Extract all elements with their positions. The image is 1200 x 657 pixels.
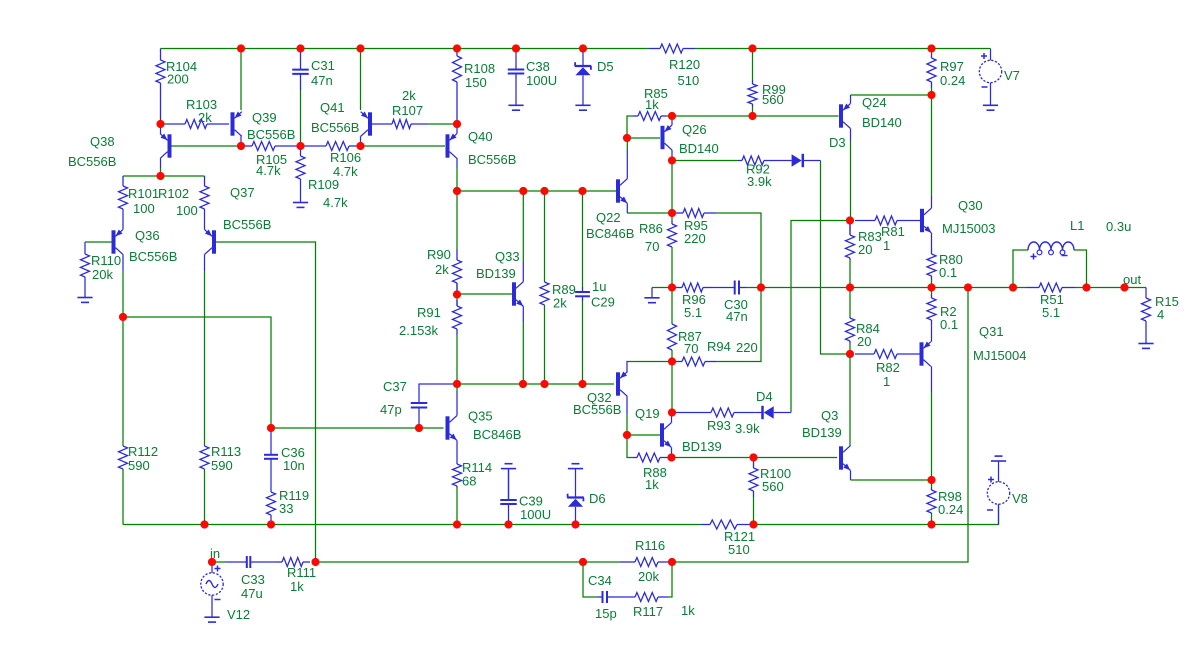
wire Q3 emitter lead (850, 470, 852, 480)
junction bottom rail / R98 (927, 520, 935, 528)
resistor R116 (620, 558, 672, 567)
svg-text:Q33: Q33 (495, 249, 520, 264)
wire C36 R119 link (270, 459, 272, 492)
junction Q31 bias node (846, 350, 854, 358)
transistor Q3 BD139 (841, 446, 850, 471)
junction node R104 R103 Q38 (156, 120, 164, 128)
junction R106 / Q41 collector (356, 142, 364, 150)
wire Q40 collector lead (456, 158, 458, 168)
wire Q36 emitter lead (122, 215, 124, 230)
minus V12 (215, 599, 221, 601)
wire top supply rail right (695, 48, 991, 50)
wire Q38 emitter lead (160, 124, 162, 134)
svg-text:4.7k: 4.7k (323, 195, 348, 210)
wire feedback takeoff (672, 288, 968, 563)
svg-text:220: 220 (736, 340, 758, 355)
wire Q32 collector lead (626, 396, 628, 414)
wire Q32 collector to Q19 base (627, 414, 660, 435)
svg-text:C31: C31 (311, 58, 335, 73)
junction L1 left (1009, 283, 1017, 291)
wire R100 bottom to rail (753, 497, 755, 525)
svg-text:BC556B: BC556B (468, 152, 516, 167)
svg-text:70: 70 (645, 239, 659, 254)
svg-text:D4: D4 (756, 389, 773, 404)
wire Q31 collector lead (931, 366, 933, 392)
plus V12 (215, 566, 221, 572)
wire Q37 collector lead (204, 254, 206, 271)
svg-text:Q35: Q35 (468, 409, 493, 424)
node in (208, 558, 216, 566)
svg-text:out: out (1123, 272, 1141, 287)
junction feedback / R111 (311, 558, 319, 566)
wire node R94 down to R93 node (671, 362, 673, 413)
plus V7 (981, 53, 987, 59)
wire L1 loop (1013, 250, 1028, 288)
svg-text:BC556B: BC556B (573, 402, 621, 417)
junction Q3 emitter / R98 (927, 476, 935, 484)
svg-text:Q19: Q19 (635, 406, 660, 421)
resistor R100 (749, 458, 758, 498)
transistor Q33 BD139 (514, 282, 523, 307)
wire R97 top (931, 49, 933, 55)
transistor Q35 BC846B (448, 416, 457, 441)
junction row384 / R89 (540, 380, 548, 388)
svg-text:560: 560 (762, 92, 784, 107)
wire V7 lead bottom to ground (990, 83, 992, 105)
svg-text:1k: 1k (645, 477, 659, 492)
wire R87 to R94 node (671, 350, 673, 362)
wire Q3 emitter row (851, 479, 932, 481)
junction R99 / base row (748, 112, 756, 120)
resistor R80 (927, 249, 936, 281)
resistor R112 (119, 446, 128, 469)
wire Q24-Q30 bias to R83 (849, 224, 851, 234)
wire lag C34 branch right (668, 562, 672, 597)
wire output rail (761, 287, 1027, 289)
svg-text:Q41: Q41 (320, 100, 345, 115)
wire R88 to R100 node (672, 457, 754, 459)
resistor R92 (738, 156, 768, 165)
svg-text:Q24: Q24 (862, 95, 887, 110)
svg-text:C29: C29 (591, 295, 615, 310)
svg-text:Q40: Q40 (468, 129, 493, 144)
svg-text:R111: R111 (287, 565, 316, 580)
wire Q35 base stub (419, 427, 444, 429)
wire bottom rail left (123, 524, 701, 526)
resistor R98 (927, 488, 936, 514)
capacitor C37 (411, 403, 428, 408)
resistor R86 (668, 221, 677, 247)
wire Q22 collector lead (626, 150, 628, 179)
wire Q36 collector down (122, 271, 124, 317)
wire Q19 emitter stub (671, 447, 673, 457)
junction zobel ground node (668, 283, 676, 291)
svg-text:R107: R107 (392, 103, 423, 118)
svg-text:R101: R101 (128, 186, 159, 201)
junction Q19 emitter / R88 (667, 453, 675, 461)
junction row190 / R89 (540, 187, 548, 195)
resistor R97 (927, 54, 936, 88)
svg-text:L1: L1 (1070, 218, 1084, 233)
svg-text:0.1: 0.1 (939, 265, 957, 280)
junction top rail / R99 (748, 44, 756, 52)
wire Q19 base node down to R88 (627, 435, 633, 458)
wire Q36 collector lead (122, 254, 124, 271)
svg-text:R113: R113 (211, 444, 241, 459)
svg-text:33: 33 (279, 501, 293, 516)
junction feedback takeoff (964, 283, 972, 291)
wire R106 to Q40 base (361, 145, 445, 147)
wire output rail to out node (1087, 287, 1147, 289)
junction bottom rail / R113 (200, 520, 208, 528)
svg-text:Q36: Q36 (135, 228, 160, 243)
wire D3 anode lead (768, 160, 792, 162)
svg-text:0.24: 0.24 (938, 502, 963, 517)
svg-text:68: 68 (462, 474, 476, 489)
junction bottom rail / D6 (571, 520, 579, 528)
svg-text:20: 20 (858, 242, 872, 257)
wire R112 link (122, 317, 124, 446)
wire node Q24 emitter to R97 bottom (851, 94, 932, 96)
transistor Q37 BC556B (205, 230, 214, 255)
resistor R2 (927, 294, 936, 326)
svg-text:C37: C37 (383, 379, 407, 394)
svg-text:Q30: Q30 (958, 198, 983, 213)
junction feedback / C34 branch (579, 558, 587, 566)
junction bottom rail / C39 (504, 520, 512, 528)
wire Q38 base row (172, 145, 241, 147)
svg-text:V8: V8 (1012, 491, 1028, 506)
wire feedback row left (316, 561, 584, 563)
plus L1 (1031, 254, 1037, 260)
svg-text:1k: 1k (645, 97, 659, 112)
wire C29 top link (582, 191, 584, 287)
junction Q26 collector / R92 (668, 156, 676, 164)
resistor R99 (748, 80, 757, 107)
resistor R106 (303, 142, 361, 151)
svg-text:Q22: Q22 (596, 210, 621, 225)
wire D4 anode lead (774, 412, 791, 414)
ground above D6 (568, 464, 583, 469)
wire C39 bottom link (508, 508, 510, 525)
svg-text:2k: 2k (402, 88, 416, 103)
svg-text:590: 590 (211, 458, 233, 473)
wire Q26 emitter stub (671, 116, 673, 125)
wire D4 anode up to bias node (791, 221, 850, 413)
svg-text:Q3: Q3 (821, 408, 838, 423)
svg-text:3.9k: 3.9k (747, 174, 772, 189)
wire Q36 collector to C36 node (123, 317, 271, 428)
junction Q22 collector / Q26 base (623, 134, 631, 142)
wire output rail r51 right (1075, 287, 1087, 289)
wire R109 to ground (300, 179, 302, 202)
svg-text:1k: 1k (290, 579, 304, 594)
svg-text:R94: R94 (707, 339, 731, 354)
wire Q33 base (457, 293, 512, 295)
diode D3 (792, 154, 803, 167)
svg-text:100U: 100U (526, 73, 557, 88)
junction Q35 base / C37 (415, 424, 423, 432)
svg-text:70: 70 (684, 341, 698, 356)
junction Q40 collector / R90 (453, 187, 461, 195)
resistor R103 (166, 120, 229, 129)
wire bottom rail right (754, 504, 999, 525)
wire R86 top node (671, 213, 673, 221)
junction top rail / Q39 emitter (237, 44, 245, 52)
ground under R109 (293, 203, 308, 208)
wire Q24 emitter stub (850, 95, 852, 104)
svg-text:47n: 47n (726, 309, 748, 324)
svg-text:BD140: BD140 (862, 115, 902, 130)
resistor R107 (372, 120, 428, 129)
svg-text:0.24: 0.24 (940, 73, 965, 88)
svg-text:C33: C33 (241, 572, 265, 587)
wire R94 to output column (716, 288, 761, 362)
wire C36 node to Q35 base node (271, 427, 419, 429)
ground under V12 (204, 617, 219, 622)
resistor R121 (701, 520, 754, 529)
wire C36 top lead (270, 428, 272, 455)
svg-text:Q37: Q37 (230, 185, 255, 200)
capacitor C36 (264, 455, 278, 459)
resistor R15 (1142, 298, 1151, 321)
wire Q3 collector stub (850, 445, 852, 447)
svg-text:1: 1 (883, 238, 890, 253)
wire Q41 emitter to top rail (360, 49, 362, 111)
ground under V7 (983, 105, 998, 110)
capacitor C30 (712, 281, 746, 295)
wire zobel ground stub (651, 288, 653, 298)
wire R109 top link (300, 146, 302, 156)
wire R110 top link (84, 242, 86, 254)
resistor R85 (633, 112, 666, 121)
wire C37 top elbow (419, 384, 457, 403)
resistor R83 (846, 224, 855, 260)
junction row190 / C29 (578, 187, 586, 195)
junction bottom rail / R114 (453, 520, 461, 528)
svg-text:510: 510 (678, 73, 700, 88)
wire D5 top link (582, 49, 584, 67)
svg-text:150: 150 (465, 75, 487, 90)
resistor R108 (453, 49, 462, 125)
wire R15 lead (1145, 288, 1147, 299)
wire R15 to ground (1145, 321, 1147, 344)
wire Q26 collector node down to Q22 emitter node (671, 161, 673, 214)
wire R84 link top (849, 288, 851, 318)
resistor R93 (676, 408, 754, 417)
wire Q22 emitter stub (626, 203, 628, 213)
wire D4 cathode lead (754, 412, 762, 414)
wire R85 left elbow (627, 116, 633, 138)
svg-text:2k: 2k (435, 262, 449, 277)
svg-text:2k: 2k (198, 110, 212, 125)
resistor R95 (676, 209, 716, 218)
transistor Q39 BC556B (233, 112, 242, 137)
wire R102 bottom lead (204, 209, 206, 215)
svg-text:R86: R86 (639, 221, 663, 236)
resistor R101 (119, 176, 128, 209)
wire R114 bottom (456, 488, 458, 525)
resistor R110 (81, 254, 90, 277)
transistor Q38 BC556B (160, 134, 169, 159)
svg-text:200: 200 (167, 72, 189, 87)
svg-text:BC556B: BC556B (129, 249, 177, 264)
wire Q39 collector lead (240, 136, 242, 146)
resistor R90 (453, 249, 462, 294)
svg-text:R116: R116 (635, 538, 665, 553)
wire R91 bottom (456, 335, 458, 384)
wire R107 to R108 node (428, 123, 457, 125)
ground above C39 (501, 464, 516, 469)
junction R93 / Q19 collector (668, 408, 676, 416)
resistor R87 (668, 324, 677, 350)
svg-text:47n: 47n (311, 73, 333, 88)
wire top supply rail left (161, 48, 650, 50)
svg-text:BD139: BD139 (476, 266, 516, 281)
transistor Q19 BD139 (662, 423, 671, 448)
svg-text:R117: R117 (633, 604, 663, 619)
wire Q33 emitter down (522, 322, 524, 384)
wire R97 link (931, 88, 933, 95)
diode D5 (575, 62, 592, 75)
wire R99 bottom link (752, 107, 754, 116)
svg-text:R91: R91 (417, 305, 441, 320)
junction tail node (156, 172, 164, 180)
svg-text:R120: R120 (669, 57, 700, 72)
svg-text:R108: R108 (464, 61, 495, 76)
wire Q33 collector lead (522, 262, 524, 282)
svg-text:4: 4 (1157, 307, 1164, 322)
wire D6 bottom link (575, 507, 577, 525)
transistor Q41 BC556B (361, 112, 370, 137)
wire R100 node to Q3 base (754, 457, 838, 459)
resistor R88 (633, 453, 672, 462)
svg-text:20k: 20k (92, 267, 113, 282)
svg-text:20: 20 (857, 334, 871, 349)
diode D6 (567, 494, 584, 507)
svg-text:R102: R102 (158, 186, 189, 201)
wire R98 top link (931, 480, 933, 488)
junction node R107 R108 Q40 (453, 120, 461, 128)
svg-text:R93: R93 (707, 418, 731, 433)
svg-text:100: 100 (176, 203, 198, 218)
resistor R102 (200, 176, 209, 209)
wire D3 cathode lead (803, 160, 821, 162)
wire Q32 emitter stub (627, 362, 629, 373)
wire R99 top link (752, 49, 754, 81)
junction R83 R84 output rail (846, 283, 854, 291)
wire C38 to ground (515, 78, 517, 105)
wire D6 ground stem (575, 469, 577, 498)
wire R98 bottom link (931, 514, 933, 525)
resistor R120 (649, 44, 695, 53)
svg-text:R97: R97 (940, 59, 964, 74)
wire Q41 collector lead (360, 136, 362, 146)
svg-text:1: 1 (883, 374, 890, 389)
svg-text:R90: R90 (427, 247, 451, 262)
ground under R15 (1138, 344, 1153, 349)
resistor R117 (612, 593, 668, 602)
wire Q22 emitter row (627, 212, 672, 214)
svg-text:BC846B: BC846B (473, 427, 521, 442)
junction top rail / C31 (296, 44, 304, 52)
svg-text:1u: 1u (592, 279, 606, 294)
svg-text:Q38: Q38 (90, 134, 115, 149)
resistor R84 (846, 317, 855, 343)
resistor R105 (243, 142, 298, 151)
junction top rail / D5 (579, 44, 587, 52)
svg-text:MJ15004: MJ15004 (973, 348, 1026, 363)
wire R89 top link (544, 191, 546, 282)
wire V12 top lead (211, 562, 213, 573)
svg-text:R110: R110 (91, 253, 121, 268)
wire Q37 emitter lead (204, 215, 206, 230)
junction row190 / Q33 collector (519, 187, 527, 195)
wire Q33 emitter lead (522, 306, 524, 322)
svg-text:V7: V7 (1004, 68, 1020, 83)
wire lag C34 branch left (583, 562, 597, 597)
wire Q37 collector down (204, 271, 206, 446)
wire R112 bottom (122, 469, 124, 525)
wire R113 bottom (204, 469, 206, 525)
wire R84 bottom node (849, 343, 851, 354)
wire feedback column to Q37 base (216, 242, 316, 562)
junction R85 / Q26 emitter (668, 112, 676, 120)
svg-text:BC556B: BC556B (68, 154, 116, 169)
junction Q22 emitter / R86 / R95 (668, 209, 676, 217)
svg-text:BC846B: BC846B (586, 226, 634, 241)
wire VAS input row y190 (457, 190, 616, 192)
svg-text:3.9k: 3.9k (735, 421, 760, 436)
wire R89 bottom link (544, 305, 546, 384)
svg-text:BC556B: BC556B (247, 127, 295, 142)
svg-text:D3: D3 (829, 135, 846, 150)
transistor Q40 BC556B (448, 134, 457, 159)
capacitor C39 (500, 469, 517, 508)
wire Q33 collector up (522, 191, 524, 262)
ground above V8 (991, 456, 1006, 461)
wire V12 bottom lead to ground (211, 595, 213, 617)
svg-text:Q39: Q39 (252, 110, 277, 125)
wire R80 bottom link (931, 280, 933, 288)
wire R101 bottom lead (122, 209, 124, 215)
transistor Q26 BD140 (663, 125, 672, 150)
svg-text:R82: R82 (876, 360, 900, 375)
wire C37 bottom lead (418, 408, 420, 429)
wire Q22 collector up (626, 138, 628, 150)
wire Q32 emitter row (629, 361, 673, 363)
svg-text:1k: 1k (681, 603, 695, 618)
junction Q32 collector / Q19 base (623, 431, 631, 439)
junction bottom rail / R119 (267, 520, 275, 528)
capacitor C33 (225, 556, 276, 568)
svg-text:560: 560 (762, 479, 784, 494)
wire Q39 emitter to top rail (240, 49, 242, 111)
svg-text:V12: V12 (227, 607, 250, 622)
wire R90 top link (456, 191, 458, 249)
svg-text:20k: 20k (638, 569, 659, 584)
svg-text:R106: R106 (330, 150, 361, 165)
wire feedback row mid (583, 561, 620, 563)
voltage source V12 (201, 573, 223, 595)
wire lower VAS row y384 (457, 383, 614, 385)
svg-text:47p: 47p (380, 402, 402, 417)
wire ground stub zobel (652, 287, 672, 289)
wire Q31 collector down (931, 392, 933, 480)
junction R90 R91 Q33 base (453, 290, 461, 298)
wire bias row y116 R85 to Q24 base (666, 115, 839, 117)
resistor R114 (453, 462, 462, 488)
